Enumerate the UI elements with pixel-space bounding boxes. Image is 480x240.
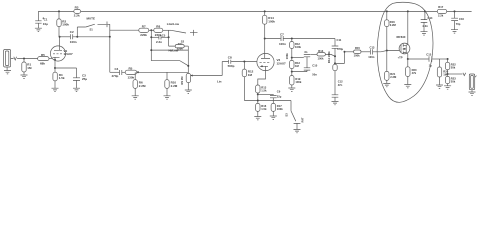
resistor R12 1M — [242, 69, 253, 77]
node gate — [386, 50, 388, 52]
capacitor C3 25u — [73, 74, 87, 82]
wire gate node to R21 — [386, 51, 388, 72]
node rail drain — [407, 10, 409, 12]
capacitor C2 100n — [70, 30, 77, 44]
tube V2 12AX7 — [257, 53, 286, 70]
tube V1 12AX7 — [50, 46, 73, 61]
node rail C14 — [424, 10, 426, 12]
capacitor C13 100n — [368, 46, 375, 60]
node rail V2 — [264, 10, 266, 12]
wire R17b to ground — [272, 111, 274, 116]
resistor R21b 1M — [437, 67, 448, 77]
resistor R16 2.2M — [385, 20, 397, 27]
node C5 right — [168, 36, 170, 38]
svg-text:C7: C7 — [280, 33, 284, 37]
resistor R6 2.2M — [133, 80, 146, 89]
wire rail to R16 — [386, 11, 388, 19]
node rail C16 — [454, 10, 456, 12]
resistor R10 2.2M — [165, 80, 178, 89]
svg-text:C9: C9 — [277, 90, 281, 94]
wire R10 drop — [166, 72, 168, 79]
node tone — [291, 57, 293, 59]
wire C15 to out divider — [432, 58, 448, 60]
node pot top tap — [187, 65, 189, 67]
svg-text:C4: C4 — [115, 67, 119, 71]
resistor R5 68k — [38, 53, 49, 66]
svg-text:20k: 20k — [451, 65, 456, 69]
capacitor C10 50n — [304, 64, 318, 77]
wire input to grid — [11, 58, 38, 60]
node feedback — [344, 51, 346, 53]
wire C2 to mute node — [73, 36, 110, 38]
node bright junction — [137, 71, 139, 73]
wire R2 to plate node — [58, 27, 61, 37]
node lower tone — [291, 71, 293, 73]
svg-text:3n: 3n — [304, 50, 307, 54]
svg-text:1.5k: 1.5k — [261, 107, 267, 111]
wire R6 to ground — [134, 88, 136, 95]
node V2 plate — [264, 38, 266, 40]
wire R11 to pot top — [184, 45, 188, 47]
wire R16b to ground — [257, 111, 259, 116]
svg-text:Hi/Low: Hi/Low — [169, 49, 179, 53]
input jack J1 — [4, 50, 11, 71]
svg-text:470µ: 470µ — [337, 47, 343, 51]
svg-text:IRF840: IRF840 — [397, 35, 406, 39]
resistor R15 100k — [354, 46, 361, 58]
svg-text:Lin: Lin — [217, 79, 222, 83]
svg-text:2.2n: 2.2n — [423, 24, 429, 28]
resistor R4 1.5k — [53, 72, 65, 81]
wire rail to C1 — [37, 11, 39, 20]
wire C5 left lead — [151, 36, 158, 38]
wire tone stub to 3n cap — [292, 57, 304, 59]
output jack J2 — [469, 74, 476, 92]
svg-text:10µ: 10µ — [43, 22, 48, 26]
wire R15 line — [345, 51, 354, 53]
wire R15 to C13 — [361, 51, 370, 53]
wire tap to jack — [448, 73, 463, 75]
resistor R20 47k — [406, 67, 417, 77]
wire C10 to lower node — [292, 70, 307, 72]
node R14 top — [334, 62, 336, 64]
ground (R10) — [164, 96, 171, 99]
capacitor C16 70p — [451, 17, 464, 26]
resistor R13b 1M — [285, 53, 301, 69]
svg-text:1.5k: 1.5k — [261, 89, 267, 93]
wire C9 stub — [258, 93, 274, 95]
svg-text:100k: 100k — [285, 53, 289, 59]
node cathode lower — [257, 100, 259, 102]
capacitor C7 100n — [279, 33, 286, 46]
svg-text:12AX7: 12AX7 — [277, 62, 287, 66]
wire V1 cathode down — [54, 61, 56, 68]
resistor R22 20k — [445, 62, 456, 69]
svg-text:C15: C15 — [426, 53, 431, 57]
svg-text:100k: 100k — [318, 56, 324, 60]
wire C5 right lead — [161, 36, 168, 38]
wire C11 to node — [334, 48, 336, 63]
capacitor C11 470u — [332, 38, 344, 51]
node mid tap — [150, 49, 152, 51]
svg-text:2.2M: 2.2M — [390, 75, 397, 79]
svg-text:100n: 100n — [70, 40, 77, 44]
wire R21 to ground — [386, 80, 388, 83]
svg-text:1M: 1M — [27, 66, 32, 70]
node V1 plate — [59, 36, 61, 38]
resistor R17 2.2k (series in rail) — [437, 5, 446, 18]
capacitor C5 2.2n — [156, 33, 166, 43]
svg-text:22µ: 22µ — [277, 94, 282, 98]
ground (R21) — [383, 83, 390, 86]
wire R13h to C11 node — [325, 54, 335, 56]
wire 3n node to R13h — [310, 53, 317, 55]
wire source node to R20 — [407, 59, 409, 67]
resistor R17b 100k — [271, 103, 283, 111]
resistor R23 20k — [445, 76, 456, 83]
wire source to node — [407, 54, 409, 59]
enclosure outline (hand-drawn loop) — [377, 2, 433, 102]
svg-text:12AX7: 12AX7 — [64, 52, 74, 56]
wire V2 cathode jog — [258, 71, 266, 85]
svg-text:100n: 100n — [368, 55, 374, 59]
svg-text:C2: C2 — [70, 30, 74, 34]
wire C12 to ground — [334, 97, 336, 101]
svg-text:R8: R8 — [156, 24, 160, 28]
transistor Q1 IRF840 — [397, 35, 410, 59]
wire mute branch up — [77, 27, 86, 37]
node input junction — [23, 58, 25, 60]
node V1 cathode — [54, 67, 56, 69]
node mute left — [76, 36, 78, 38]
switch S2 Lite/Low — [167, 22, 198, 36]
wire FAT feed — [258, 101, 291, 111]
switch S3 Hi/Low — [151, 49, 188, 66]
potentiometer R9 1M — [180, 73, 222, 84]
wire R12 drop — [243, 62, 245, 70]
svg-text:470p: 470p — [112, 74, 119, 78]
svg-text:C1: C1 — [44, 17, 48, 21]
wire R1 drop — [23, 59, 25, 63]
svg-text:S3: S3 — [284, 113, 288, 117]
resistor R7 220k — [139, 24, 149, 37]
svg-text:C10: C10 — [312, 64, 317, 68]
resistor R2 100k — [57, 19, 70, 27]
wire R12 down to cathode line — [244, 77, 257, 101]
wire R13b to lower node — [291, 69, 293, 76]
svg-text:220k: 220k — [140, 33, 147, 37]
svg-text:500p: 500p — [228, 64, 235, 68]
svg-text:+TP: +TP — [398, 56, 403, 60]
svg-text:R7: R7 — [142, 24, 146, 28]
node V2 grid — [243, 61, 245, 63]
wire plate node to C2 — [60, 36, 71, 38]
resistor R8 220k — [154, 24, 163, 37]
wire C3 to ground — [76, 80, 78, 88]
wire C5 branch vertical left — [150, 30, 152, 60]
wire V2 plate up — [264, 39, 266, 54]
wire bright line to pot column — [137, 71, 188, 73]
wire cathode to R4 — [54, 68, 56, 72]
wire rail to R2 — [58, 11, 60, 19]
node C5 left — [150, 36, 152, 38]
svg-text:2.2M: 2.2M — [139, 84, 146, 88]
capacitor C8 500p — [228, 56, 235, 68]
wire bright line left — [110, 71, 120, 73]
ground (pot R9) — [185, 90, 192, 93]
wire C13 to gate — [373, 51, 400, 52]
wire C1 to ground — [37, 23, 39, 28]
node R7/R8 junction — [150, 29, 152, 31]
ground (output jack) — [469, 92, 476, 95]
ground (R19) — [288, 88, 295, 91]
svg-text:20k: 20k — [451, 79, 456, 83]
wire C14 to ground — [423, 22, 425, 31]
svg-text:68k: 68k — [40, 62, 45, 66]
capacitor C14 2.2n — [421, 16, 433, 28]
svg-text:100k: 100k — [295, 45, 301, 49]
wire rail to C14 — [423, 11, 426, 19]
wire rail to C16 — [454, 11, 456, 18]
node out tap — [447, 73, 449, 75]
wire to R22 — [447, 59, 449, 62]
capacitor C1 10u — [35, 17, 48, 25]
pot column R9 — [187, 46, 189, 73]
resistor R1 — [22, 62, 26, 72]
svg-text:R5: R5 — [41, 53, 45, 57]
node after mute — [109, 36, 111, 38]
svg-text:2.2n: 2.2n — [156, 40, 162, 44]
capacitor C9 22u — [270, 90, 282, 99]
wire node down to bright line — [109, 37, 111, 73]
wire C4 to R5b — [122, 71, 125, 73]
svg-text:2.2k: 2.2k — [438, 14, 444, 18]
node rail R2 — [58, 10, 60, 12]
svg-text:R9 1M: R9 1M — [180, 76, 184, 85]
wire R16 to gate node — [386, 27, 388, 51]
wire plate to C7 — [265, 38, 281, 40]
svg-text:70p: 70p — [456, 22, 461, 26]
wire 68k to V1 grid — [49, 58, 53, 60]
svg-text:R3: R3 — [75, 6, 79, 10]
wire R8 to switch — [163, 29, 171, 31]
resistor R13c 1.5k (V2 cathode) — [256, 85, 267, 93]
ground (C14) — [421, 32, 428, 35]
wire 3n to C10 — [306, 57, 308, 68]
resistor R3 2.2k (series in rail) — [74, 6, 81, 18]
svg-text:100k: 100k — [277, 107, 283, 111]
resistor R11 220k — [175, 42, 184, 50]
node rail gate divider — [386, 10, 388, 12]
svg-text:130k: 130k — [128, 75, 135, 79]
svg-text:47n: 47n — [338, 83, 343, 87]
wire C9 to R17b — [272, 94, 274, 103]
wire R14 to C12 — [334, 71, 336, 95]
wire rail to drain — [407, 11, 409, 44]
node out divider top — [447, 58, 449, 60]
svg-text:100k: 100k — [268, 20, 275, 24]
ground (R20) — [404, 85, 411, 88]
wire R22 to tap — [447, 70, 449, 77]
wire V1 plate up — [59, 37, 61, 46]
wire cathode column — [257, 93, 259, 103]
node source — [407, 58, 409, 60]
svg-text:C13: C13 — [370, 46, 375, 50]
wire R19 to ground — [291, 85, 293, 88]
svg-text:47k: 47k — [412, 71, 417, 75]
wire node to R7 — [110, 29, 139, 31]
svg-text:C16: C16 — [459, 17, 464, 21]
ground (C3) — [73, 88, 80, 91]
wire R12b to tone node — [291, 49, 293, 58]
svg-text:S1: S1 — [90, 28, 94, 32]
resistor R21 2.2M — [385, 71, 397, 80]
svg-text:100k: 100k — [354, 54, 360, 58]
svg-text:2.2M: 2.2M — [390, 23, 397, 27]
svg-text:2.2k: 2.2k — [74, 13, 80, 17]
ground (C16) — [451, 30, 458, 33]
svg-text:1M: 1M — [248, 73, 253, 77]
wire wiper up to C8 — [222, 62, 228, 76]
node V (input tip mark) — [14, 57, 17, 60]
resistor R14 100k (vertical) — [327, 51, 337, 71]
ground (R16b) — [254, 117, 261, 120]
wire mid tap line — [151, 49, 188, 51]
svg-text:R17: R17 — [438, 5, 443, 9]
node cathode C9 tap — [257, 93, 259, 95]
svg-text:100k: 100k — [295, 80, 301, 84]
svg-text:Lite/Low: Lite/Low — [167, 22, 180, 26]
resistor R16b 1.5k — [256, 103, 267, 111]
ground (R6) — [132, 96, 139, 99]
resistor R5b 130k — [125, 67, 137, 80]
node C11 bottom — [334, 55, 336, 57]
resistor R10b 100k (V2 plate load) — [263, 15, 276, 24]
node divider top — [291, 38, 293, 40]
wire R10 to ground — [166, 88, 168, 95]
capacitor 3n — [304, 50, 310, 57]
svg-text:FAT: FAT — [301, 117, 305, 122]
svg-text:100n: 100n — [279, 42, 286, 46]
wire R23 to ground — [447, 84, 449, 86]
svg-text:MUTE: MUTE — [87, 17, 96, 21]
wire middle resistor — [291, 58, 293, 61]
wire junction segment — [149, 29, 154, 31]
capacitor C15 1u — [426, 53, 432, 68]
ground (C12) — [332, 101, 339, 104]
svg-text:1.5k: 1.5k — [59, 76, 65, 80]
ground (R4) — [52, 88, 59, 91]
wire pot to ground — [187, 83, 189, 90]
ground (R21b) — [436, 85, 443, 88]
svg-text:2.2M: 2.2M — [171, 84, 178, 88]
resistor R12b 100k — [290, 42, 302, 49]
svg-text:100k: 100k — [62, 23, 69, 27]
wire divider top drop — [291, 39, 293, 42]
wire R4 to ground — [54, 81, 56, 88]
wire R1 to ground — [23, 72, 25, 75]
ground (FAT) — [294, 129, 301, 132]
ground (R1) — [21, 75, 28, 78]
svg-text:C8: C8 — [228, 56, 232, 60]
ground (R23) — [444, 86, 451, 89]
resistor R19 100k — [290, 76, 302, 86]
ground (C1) — [35, 28, 42, 31]
wire C16 to ground — [454, 21, 456, 30]
wire R20 to ground — [407, 77, 409, 85]
wire R6 drop — [134, 72, 136, 79]
B+ rail left segment — [38, 10, 471, 12]
capacitor C12 47n — [332, 80, 343, 98]
wire FAT to ground — [296, 125, 298, 129]
wire C7 to divider node — [284, 38, 336, 40]
wire C8 to V2 grid — [231, 61, 257, 63]
svg-text:25µ: 25µ — [82, 77, 87, 81]
switch S4 FAT — [284, 111, 304, 125]
wire cathode to C3 — [55, 68, 77, 78]
ground (input jack) — [4, 71, 11, 74]
wire feedback stub — [335, 52, 345, 64]
wire R21b tap — [439, 59, 441, 67]
svg-text:C11: C11 — [337, 38, 342, 42]
wire R21b to ground — [439, 77, 441, 85]
resistor R13h 100k — [317, 49, 325, 60]
capacitor C4 470p — [112, 67, 122, 78]
node V out mark — [463, 73, 466, 76]
svg-text:R14 100k: R14 100k — [327, 51, 331, 63]
svg-text:C5: C5 — [162, 33, 166, 37]
wire rail line corner to C11 — [334, 39, 336, 47]
wire rail to R10b — [264, 11, 266, 15]
svg-text:R15: R15 — [355, 46, 360, 50]
wire R10b to plate — [264, 24, 266, 38]
svg-text:50n: 50n — [312, 72, 317, 76]
ground (R17b) — [270, 116, 277, 119]
wire C5 node to R11 line — [169, 30, 176, 46]
switch S1 MUTE — [86, 17, 110, 37]
wire source to C15 — [408, 58, 429, 60]
